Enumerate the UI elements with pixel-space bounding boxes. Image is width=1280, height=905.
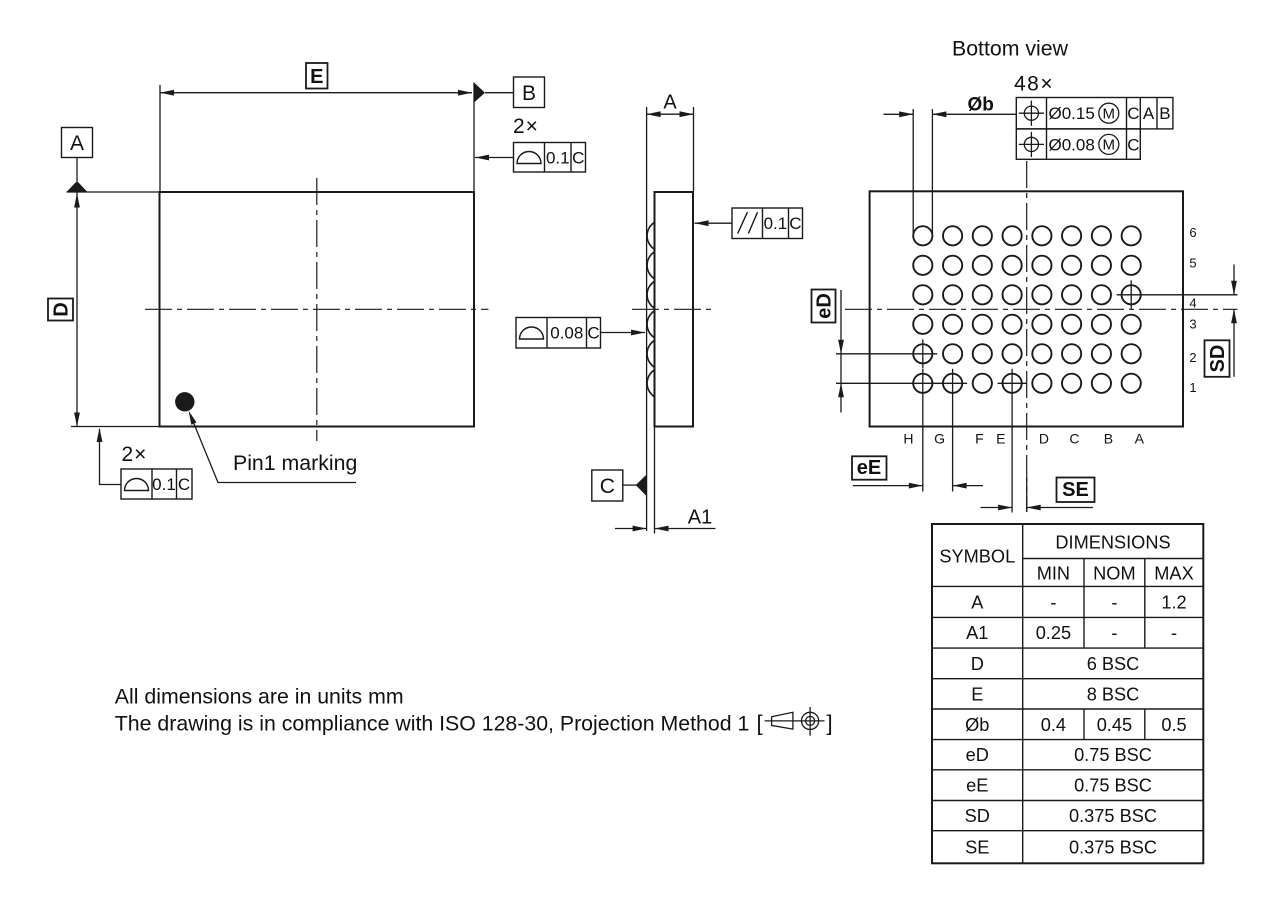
crossed ball H2 (922, 339, 924, 368)
profile leader arrow to seating line (601, 332, 646, 334)
svg-text:C: C (600, 475, 615, 498)
svg-text:0.08: 0.08 (550, 324, 583, 343)
eD label box (rotated) (812, 290, 836, 323)
svg-text:SE: SE (1062, 479, 1089, 501)
svg-text:C: C (1127, 135, 1139, 154)
svg-text:Ø0.15: Ø0.15 (1049, 104, 1095, 123)
svg-text:eD: eD (814, 293, 836, 319)
svg-text:C: C (587, 324, 599, 343)
svg-text:Øb: Øb (968, 95, 994, 116)
svg-text:MAX: MAX (1154, 564, 1193, 584)
position tolerance frame row2: Ø0.08 M | C (1016, 129, 1140, 159)
dimensions table (932, 524, 1203, 863)
side view package body (655, 192, 694, 427)
svg-text:0.1: 0.1 (546, 148, 570, 167)
svg-text:C: C (789, 214, 801, 233)
SE dimension line with arrows (981, 507, 1013, 509)
svg-text:Bottom view: Bottom view (952, 37, 1069, 61)
svg-text:2: 2 (1189, 350, 1196, 365)
svg-text:6: 6 (1189, 225, 1196, 240)
svg-text:A: A (971, 592, 984, 612)
dimension A extension line right (693, 107, 695, 192)
dimension E extension line left (159, 85, 161, 192)
svg-text:The drawing is in compliance w: The drawing is in compliance with ISO 12… (115, 712, 750, 736)
svg-text:-: - (1050, 592, 1056, 612)
svg-text:-: - (1171, 623, 1177, 643)
eD dimension line with arrows (840, 290, 842, 413)
svg-text:A: A (70, 132, 84, 155)
svg-text:SD: SD (1207, 345, 1229, 373)
bottom view horizontal centerline (845, 308, 1238, 310)
top view horizontal centerline (145, 308, 489, 310)
svg-text:-: - (1111, 592, 1117, 612)
profile tolerance frame 0.08 C side view (516, 318, 601, 349)
svg-text:0.75 BSC: 0.75 BSC (1074, 745, 1152, 765)
svg-text:0.1: 0.1 (764, 214, 788, 233)
leader from frame to right extension line (475, 157, 514, 159)
svg-text:-: - (1111, 623, 1117, 643)
dimension E line with arrows (160, 92, 472, 94)
A1 extension line (body bottom) (654, 427, 656, 534)
svg-text:A: A (1143, 104, 1155, 123)
dimension E extension line right (473, 83, 475, 192)
svg-text:SD: SD (965, 806, 990, 826)
svg-text:D: D (1039, 431, 1049, 447)
svg-text:C: C (572, 148, 584, 167)
parallelism tolerance frame 0.1 C (732, 208, 803, 239)
svg-text:4: 4 (1189, 296, 1196, 311)
datum B label box (514, 77, 545, 108)
side view ball arcs (647, 222, 654, 249)
datum A label box (62, 128, 93, 158)
svg-text:D: D (51, 302, 73, 316)
svg-text:C: C (178, 475, 190, 494)
svg-text:0.25: 0.25 (1036, 623, 1071, 643)
dimension D line with arrows (76, 192, 78, 427)
seating plane line (datum C) (646, 187, 648, 531)
svg-text:3: 3 (1189, 317, 1196, 332)
svg-text:A: A (663, 92, 677, 114)
svg-text:5: 5 (1189, 256, 1196, 271)
dimension A1 lines and arrows (615, 528, 647, 530)
svg-text:0.375 BSC: 0.375 BSC (1069, 838, 1157, 858)
svg-text:SE: SE (965, 838, 989, 858)
svg-text:8 BSC: 8 BSC (1087, 684, 1140, 704)
datum B filled triangle (474, 82, 486, 103)
svg-text:D: D (971, 654, 984, 674)
eE label box (852, 456, 887, 479)
svg-text:Øb: Øb (965, 715, 989, 735)
svg-text:C: C (1069, 431, 1079, 447)
svg-text:MIN: MIN (1037, 564, 1070, 584)
svg-text:1: 1 (1189, 380, 1196, 395)
svg-text:A1: A1 (966, 623, 988, 643)
pin1 marking dot (175, 392, 194, 411)
eD extension line row2 (836, 353, 937, 355)
pin1 leader arrow and line (189, 411, 197, 425)
svg-text:M: M (1103, 137, 1116, 154)
svg-text:48×: 48× (1014, 73, 1054, 96)
svg-text:0.75 BSC: 0.75 BSC (1074, 776, 1152, 796)
svg-text:E: E (310, 66, 323, 88)
svg-text:0.375 BSC: 0.375 BSC (1069, 806, 1157, 826)
crossed ball G1 vertical / eE extension (952, 369, 954, 492)
datum C label box (592, 470, 623, 501)
Øb extension lines from ball H6 (912, 109, 914, 236)
datum C filled triangle (636, 475, 647, 497)
svg-text:NOM: NOM (1093, 564, 1135, 584)
svg-text:C: C (1127, 104, 1139, 123)
bottom view package outline (870, 191, 1183, 426)
eD extension line row1 (836, 382, 967, 384)
svg-text:1.2: 1.2 (1161, 592, 1186, 612)
svg-text:H: H (903, 431, 913, 447)
svg-text:0.5: 0.5 (1161, 715, 1186, 735)
dimension A extension above seating line (646, 107, 648, 187)
svg-text:All dimensions are in units mm: All dimensions are in units mm (115, 685, 404, 709)
svg-text:F: F (975, 431, 984, 447)
eE dimension line with arrows (853, 485, 923, 487)
svg-text:SYMBOL: SYMBOL (939, 547, 1015, 567)
svg-text:B: B (1159, 104, 1170, 123)
Øb dimension line with arrows (884, 113, 914, 115)
SE label box (1057, 478, 1095, 503)
svg-text:E: E (971, 684, 983, 704)
bottom view vertical centerline (1026, 161, 1028, 512)
side view horizontal centerline (632, 308, 712, 310)
svg-text:Ø0.08: Ø0.08 (1049, 135, 1095, 154)
datum A leader (76, 158, 78, 182)
crossed ball E1 cross + SE extension (998, 382, 1027, 384)
dimension E label box (306, 63, 328, 89)
projection method symbol: cone (765, 720, 825, 722)
datum C leader (623, 484, 637, 486)
leader elbow from frame to bottom extension line (100, 429, 122, 485)
datum B leader (485, 92, 514, 94)
crossed ball A4 cross + SD extension line (1117, 294, 1238, 296)
svg-text:Pin1 marking: Pin1 marking (233, 451, 357, 475)
svg-text:eD: eD (966, 745, 989, 765)
svg-text:G: G (934, 431, 945, 447)
svg-text:0.45: 0.45 (1097, 715, 1132, 735)
svg-text:]: ] (827, 711, 833, 736)
dimension A line with inside arrows (647, 113, 694, 115)
svg-text:[: [ (757, 711, 763, 736)
profile tolerance frame 0.1 C top right (514, 143, 586, 173)
top view vertical centerline (316, 178, 318, 441)
SD label box (rotated) (1205, 340, 1230, 377)
svg-text:6 BSC: 6 BSC (1087, 654, 1140, 674)
SD dimension line with arrows (1233, 265, 1235, 295)
top edge extension line to left (67, 191, 160, 193)
svg-text:eE: eE (857, 457, 881, 479)
datum A filled triangle (67, 181, 88, 192)
parallelism leader arrow (695, 222, 733, 224)
svg-text:DIMENSIONS: DIMENSIONS (1055, 533, 1170, 553)
dimension D label box (48, 299, 73, 321)
bottom edge extension line to left (71, 426, 160, 428)
top view package body outline (160, 192, 475, 427)
SE centerline solid segment below package (1026, 478, 1028, 512)
projection method symbol: target (802, 712, 819, 729)
profile tolerance frame 0.1 C bottom left (121, 469, 192, 499)
svg-text:0.4: 0.4 (1041, 715, 1066, 735)
solder ball grid 8x6 (913, 226, 932, 245)
svg-text:A1: A1 (688, 507, 712, 529)
svg-text:M: M (1103, 106, 1116, 123)
position tolerance frame row1: Ø0.15 M | C | A | B (1016, 98, 1173, 129)
svg-text:eE: eE (966, 776, 988, 796)
svg-text:A: A (1135, 431, 1145, 447)
crossed ball H1 vertical / eE extension (922, 369, 924, 492)
svg-text:0.1: 0.1 (152, 475, 176, 494)
svg-text:E: E (996, 431, 1005, 447)
svg-text:2×: 2× (122, 443, 148, 466)
svg-text:B: B (1104, 431, 1113, 447)
svg-text:B: B (522, 82, 536, 105)
svg-text:2×: 2× (513, 115, 539, 138)
